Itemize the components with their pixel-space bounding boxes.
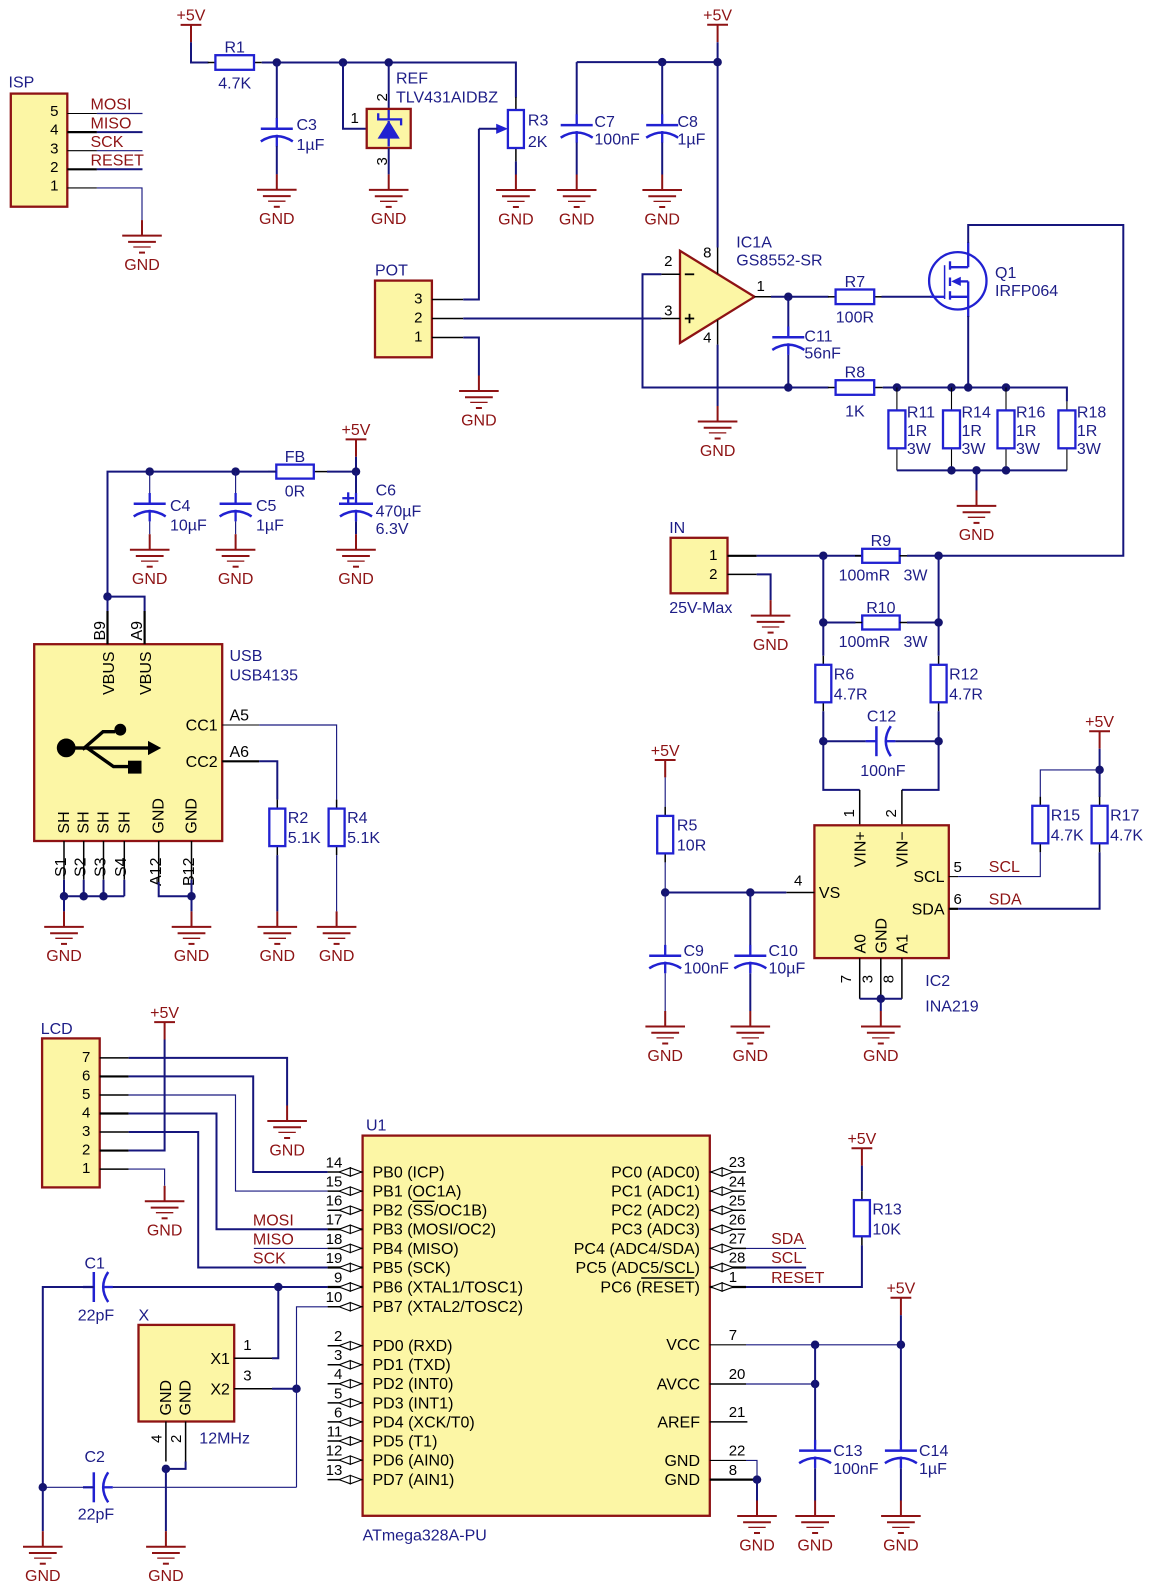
pin U1.19 <box>326 1250 363 1272</box>
svg-text:S4: S4 <box>113 857 130 877</box>
pin U1.12 <box>326 1443 363 1465</box>
svg-text:GND: GND <box>371 211 407 228</box>
svg-text:1R: 1R <box>1077 423 1097 440</box>
wire C7 bottom <box>576 143 578 175</box>
svg-text:GS8552-SR: GS8552-SR <box>736 252 822 269</box>
pin IC2.2 VIN- <box>901 790 903 825</box>
svg-text:PB2 (SS/OC1B): PB2 (SS/OC1B) <box>373 1203 488 1220</box>
svg-text:10K: 10K <box>872 1222 901 1239</box>
svg-text:GND: GND <box>174 948 210 965</box>
svg-text:C2: C2 <box>85 1449 106 1466</box>
wire Q1 source down <box>967 316 969 388</box>
wire S1 down <box>63 880 65 897</box>
svg-text:19: 19 <box>326 1250 343 1267</box>
junction VS / C9 <box>661 888 670 897</box>
svg-text:3W: 3W <box>1077 441 1102 458</box>
svg-text:GND: GND <box>132 571 168 588</box>
junction VCC / C13 <box>811 1341 820 1350</box>
pin U1.10 <box>326 1289 363 1311</box>
+5V supply (VCC) <box>886 1281 915 1316</box>
pin U1.25 <box>710 1192 746 1214</box>
svg-text:PC6 (RESET): PC6 (RESET) <box>600 1279 700 1296</box>
wire +5V to R13 <box>861 1166 863 1191</box>
svg-text:5.1K: 5.1K <box>288 830 321 847</box>
svg-text:REF: REF <box>396 71 428 88</box>
wire +5V rail down to IC1A pin8 <box>717 42 719 247</box>
svg-text:23: 23 <box>729 1154 746 1171</box>
svg-text:2: 2 <box>334 1328 342 1345</box>
ground GND (USB shield) <box>44 911 84 965</box>
pin POT.2 <box>432 318 463 320</box>
svg-text:+5V: +5V <box>651 743 680 760</box>
svg-text:PC3 (ADC3): PC3 (ADC3) <box>611 1222 700 1239</box>
svg-text:GND: GND <box>863 1048 899 1065</box>
svg-text:GND: GND <box>664 1472 700 1489</box>
svg-text:A5: A5 <box>230 708 250 725</box>
svg-text:1: 1 <box>709 547 717 564</box>
svg-text:MISO: MISO <box>91 115 132 132</box>
wire C5 top <box>235 472 237 493</box>
wire IC1A feedback <box>643 274 789 387</box>
svg-text:17: 17 <box>326 1212 343 1229</box>
svg-text:7: 7 <box>838 975 855 983</box>
svg-text:25: 25 <box>729 1192 746 1209</box>
svg-text:R9: R9 <box>871 533 892 550</box>
svg-text:POT: POT <box>375 262 408 279</box>
connector POT <box>375 262 432 357</box>
junction Q1 source / sense bus <box>964 383 973 392</box>
junction S1 <box>60 892 69 901</box>
svg-text:RESET: RESET <box>91 153 145 170</box>
svg-text:3: 3 <box>859 975 876 983</box>
svg-text:11: 11 <box>327 1423 343 1440</box>
wire pullup node to R17 <box>1099 770 1101 797</box>
svg-text:R1: R1 <box>224 40 245 57</box>
+5V supply (R5) <box>651 743 680 778</box>
svg-text:SCK: SCK <box>253 1251 286 1268</box>
svg-text:R10: R10 <box>866 600 895 617</box>
pin IC2.3 GND <box>880 958 882 999</box>
junction bank ground tap <box>972 466 981 475</box>
wire SDA net <box>958 852 1100 909</box>
wire REF pin2 branch <box>388 63 390 109</box>
wire ISP pin1 to ground <box>97 188 142 220</box>
svg-text:3W: 3W <box>962 441 987 458</box>
wire C14 bottom <box>900 1468 902 1500</box>
ground GND (C8) <box>642 175 682 229</box>
svg-text:C11: C11 <box>804 329 832 346</box>
svg-text:SCL: SCL <box>771 1250 802 1267</box>
svg-text:10R: 10R <box>677 838 706 855</box>
svg-text:5.1K: 5.1K <box>347 830 380 847</box>
wire A12 to B12 <box>159 882 192 896</box>
junction R10 right <box>934 618 943 627</box>
svg-text:100nF: 100nF <box>594 131 640 148</box>
junction C12 left <box>819 737 828 746</box>
voltage reference REF TLV431AIDBZ <box>351 71 499 166</box>
svg-text:1µF: 1µF <box>919 1461 947 1478</box>
junction +5V rail corner <box>713 58 722 67</box>
pin X.4 <box>165 1422 167 1462</box>
wire R3 wiper <box>479 128 498 130</box>
wire S4 down <box>123 880 125 897</box>
wire C13 bottom <box>814 1468 816 1500</box>
resistor R8 1K <box>828 365 883 421</box>
pin USB.B9 <box>106 611 108 644</box>
ground GND (X) <box>146 1531 186 1585</box>
wire +5V to pullup node <box>1099 749 1101 770</box>
svg-text:5: 5 <box>50 103 58 120</box>
ground GND (IC1A) <box>698 406 738 460</box>
wire REF rail R1 to R3 <box>262 63 516 98</box>
ground GND (C3) <box>257 174 297 228</box>
pin LCD.2 <box>100 1149 129 1151</box>
wire LCD pin6 to PB0 <box>129 1076 328 1172</box>
junction +5V rail / C8 <box>658 58 667 67</box>
junction IN+ / R6 branch <box>819 552 828 561</box>
pin U1.18 <box>326 1231 363 1253</box>
svg-text:56nF: 56nF <box>804 345 841 362</box>
svg-text:SCL: SCL <box>989 859 1020 876</box>
ground GND (C9) <box>645 1011 685 1065</box>
wire IN+ to R9 <box>757 555 863 557</box>
svg-text:R3: R3 <box>528 113 549 130</box>
svg-text:3: 3 <box>82 1123 90 1140</box>
svg-text:28: 28 <box>729 1250 746 1267</box>
wire POT pin1 to ground <box>463 338 479 376</box>
connector IN 25V-Max <box>669 520 732 617</box>
svg-text:C9: C9 <box>684 943 705 960</box>
wire RESET net to R13 <box>746 1245 862 1287</box>
wire R4 to ground <box>336 855 338 911</box>
pin U1.17 <box>326 1212 363 1234</box>
svg-text:TLV431AIDBZ: TLV431AIDBZ <box>396 89 498 106</box>
ground GND (LCD pin7) <box>267 1106 307 1160</box>
svg-text:GND: GND <box>733 1048 769 1065</box>
ground GND (POT) <box>459 376 499 430</box>
svg-text:GND: GND <box>664 1453 700 1470</box>
ground GND (C10) <box>731 1011 771 1065</box>
svg-text:PB4 (MISO): PB4 (MISO) <box>373 1241 459 1258</box>
svg-text:CC2: CC2 <box>186 754 218 771</box>
wire C9 bottom <box>664 973 666 1011</box>
wire PB4 MISO stub <box>254 1247 328 1249</box>
svg-text:C8: C8 <box>678 114 699 131</box>
svg-text:GND: GND <box>151 798 168 834</box>
resistor R1 <box>208 40 262 93</box>
wire LCD pin1 to ground <box>129 1169 165 1186</box>
wire IN- to ground <box>757 574 771 600</box>
wire C4 bottom <box>149 521 151 534</box>
svg-text:+5V: +5V <box>1085 714 1114 731</box>
pin U1.9 <box>328 1269 363 1291</box>
svg-text:2: 2 <box>168 1435 185 1443</box>
svg-text:PB5 (SCK): PB5 (SCK) <box>373 1260 451 1277</box>
junction R9 / drain loop <box>934 552 943 561</box>
svg-text:C7: C7 <box>594 114 615 131</box>
svg-text:R11: R11 <box>907 405 935 422</box>
pin U1.28 <box>710 1250 746 1272</box>
svg-text:22pF: 22pF <box>78 1507 115 1524</box>
svg-text:GND: GND <box>498 211 534 228</box>
svg-text:S1: S1 <box>53 857 70 877</box>
svg-text:CC1: CC1 <box>186 718 218 735</box>
ground GND (IN) <box>751 600 791 654</box>
pin IC2.4 VS <box>786 892 814 894</box>
junction C1 / C2 ground side <box>39 1483 48 1492</box>
junction FB / C6 <box>352 467 361 476</box>
wire C5 bottom <box>235 521 237 534</box>
svg-text:1R: 1R <box>962 423 982 440</box>
pin IC1A.8 V+ <box>717 248 719 274</box>
IC U1 ATmega328A-PU <box>363 1117 710 1544</box>
resistor R7 <box>828 274 882 327</box>
USB logo <box>57 724 161 774</box>
svg-text:18: 18 <box>326 1231 343 1248</box>
wire X1 to PB6 node <box>272 1287 278 1358</box>
svg-text:PD7 (AIN1): PD7 (AIN1) <box>373 1472 455 1489</box>
resistor R4 5.1K <box>329 800 381 856</box>
wire +5V to VCC net <box>900 1315 902 1345</box>
wire C14 top <box>900 1345 902 1445</box>
pin LCD.7 <box>100 1057 129 1059</box>
svg-text:C3: C3 <box>297 117 318 134</box>
pin USB.B12 <box>191 841 193 880</box>
junction A12 B12 <box>187 892 196 901</box>
pin LCD.4 <box>100 1112 129 1114</box>
svg-text:3: 3 <box>414 291 422 308</box>
wire VCC net <box>746 1344 901 1346</box>
junction X2 / PB7 / C2 <box>292 1384 301 1393</box>
pin U1.24 <box>710 1173 746 1195</box>
svg-text:1µF: 1µF <box>678 131 706 148</box>
pin U1.11 <box>327 1423 363 1445</box>
ground GND (C7) <box>557 175 597 229</box>
pin LCD.1 <box>100 1168 129 1170</box>
svg-text:8: 8 <box>703 245 711 262</box>
MOSFET Q1 IRFP064 <box>929 242 1058 317</box>
svg-text:PD0 (RXD): PD0 (RXD) <box>373 1338 453 1355</box>
svg-text:USB: USB <box>230 648 263 665</box>
junction VBUS / C4 <box>145 467 154 476</box>
svg-text:GND: GND <box>218 571 254 588</box>
svg-text:R14: R14 <box>962 405 991 422</box>
svg-text:4: 4 <box>794 872 802 889</box>
svg-text:PC5 (ADC5/SCL): PC5 (ADC5/SCL) <box>576 1260 700 1277</box>
ground GND (USB gnd) <box>172 911 212 965</box>
ground GND (C13) <box>795 1501 835 1555</box>
svg-text:MISO: MISO <box>253 1232 294 1249</box>
wire shield to ground <box>63 896 65 911</box>
ferrite bead FB 0R <box>268 449 327 501</box>
svg-text:C5: C5 <box>256 498 277 515</box>
svg-text:10µF: 10µF <box>170 518 207 535</box>
pin U1.1 <box>710 1269 746 1291</box>
wire IC2 to ground <box>880 999 882 1011</box>
wire C2 left lead <box>43 1486 94 1488</box>
svg-text:100R: 100R <box>836 310 874 327</box>
svg-text:6: 6 <box>954 891 962 908</box>
pin USB.S4 <box>123 841 125 880</box>
pin USB.A6 CC2 <box>222 760 259 762</box>
pin IC1A.1 output <box>755 296 772 298</box>
+5V supply (pullups) <box>1085 714 1114 749</box>
pin POT.3 <box>432 299 463 301</box>
capacitor C1 <box>78 1256 115 1325</box>
svg-text:12MHz: 12MHz <box>199 1431 250 1448</box>
wire C11 top <box>787 297 789 327</box>
wire CC1 to R4 <box>259 725 337 800</box>
crystal X 12MHz <box>139 1308 252 1448</box>
wire B12 to ground <box>191 880 193 912</box>
pin ISP.3 <box>67 150 97 152</box>
pin USB.A9 <box>144 611 146 644</box>
junction VBUS pins <box>103 592 112 601</box>
svg-text:1µF: 1µF <box>297 137 325 154</box>
pin U1.16 <box>326 1193 363 1215</box>
junction U1 grounds <box>753 1475 762 1484</box>
wire left sense column upper <box>822 556 824 656</box>
wire C6 top <box>355 472 357 493</box>
svg-text:SCL: SCL <box>913 869 944 886</box>
+5V supply (LCD) <box>150 1005 179 1040</box>
svg-text:20: 20 <box>729 1366 746 1383</box>
junction VCC / C14 <box>897 1341 906 1350</box>
junction C12 right <box>934 737 943 746</box>
svg-text:9: 9 <box>334 1269 342 1286</box>
svg-text:RESET: RESET <box>771 1270 825 1287</box>
pin ISP.5 <box>67 113 97 115</box>
svg-text:6.3V: 6.3V <box>376 521 409 538</box>
resistor R15 4.7K <box>1032 797 1084 853</box>
wire PB7 to X2 column <box>297 1307 328 1488</box>
svg-text:B12: B12 <box>181 857 198 886</box>
pin U1.8 GND <box>710 1478 757 1480</box>
svg-text:INA219: INA219 <box>925 998 978 1015</box>
pin POT.1 <box>432 337 463 339</box>
svg-text:4.7K: 4.7K <box>1051 827 1084 844</box>
wire X2 lead <box>272 1388 297 1390</box>
svg-text:PC4 (ADC4/SDA): PC4 (ADC4/SDA) <box>574 1241 700 1258</box>
svg-text:GND: GND <box>461 412 497 429</box>
svg-text:GND: GND <box>644 211 680 228</box>
junction R11 / sense bus <box>893 383 902 392</box>
wire +5V rail C7 C8 <box>577 61 718 63</box>
svg-text:+5V: +5V <box>703 8 732 25</box>
wire C7 top <box>576 62 578 114</box>
+5V supply (op-amp rail) <box>703 8 732 43</box>
pin IC2.7 A0 <box>859 958 861 999</box>
wire U1 ground down <box>756 1480 758 1501</box>
wire R6 to VIN+ <box>823 711 859 790</box>
capacitor C5 <box>220 493 285 535</box>
wire PB6 C1 net <box>108 1286 328 1288</box>
resistor R10 100mR 3W <box>839 600 929 651</box>
svg-text:5: 5 <box>82 1086 90 1103</box>
svg-text:4.7R: 4.7R <box>834 686 868 703</box>
svg-text:AREF: AREF <box>657 1414 700 1431</box>
svg-text:1: 1 <box>243 1337 251 1354</box>
svg-text:PD1 (TXD): PD1 (TXD) <box>373 1357 451 1374</box>
pin USB.A12 <box>158 841 160 882</box>
svg-text:GND: GND <box>559 211 595 228</box>
svg-text:4.7K: 4.7K <box>1110 827 1143 844</box>
wire net MISO <box>97 131 143 133</box>
svg-text:1: 1 <box>82 1160 90 1177</box>
capacitor C14 <box>885 1440 949 1478</box>
svg-text:2: 2 <box>883 809 900 817</box>
svg-text:4: 4 <box>50 122 58 139</box>
svg-text:470µF: 470µF <box>376 504 422 521</box>
svg-text:GND: GND <box>124 257 160 274</box>
svg-text:C10: C10 <box>769 943 798 960</box>
svg-text:VS: VS <box>819 885 840 902</box>
capacitor C3 <box>261 117 325 154</box>
svg-text:PB1 (OC1A): PB1 (OC1A) <box>373 1184 462 1201</box>
junction PB6 / X1 / C1 <box>274 1283 283 1292</box>
pin U1.13 <box>326 1462 363 1484</box>
svg-text:100nF: 100nF <box>860 763 906 780</box>
wire C2 right lead <box>113 1486 297 1488</box>
svg-text:PC0 (ADC0): PC0 (ADC0) <box>611 1164 700 1181</box>
svg-text:2: 2 <box>82 1142 90 1159</box>
svg-text:SCK: SCK <box>91 134 124 151</box>
capacitor C10 <box>734 943 805 977</box>
wire A0 GND A1 join <box>860 998 902 1000</box>
svg-text:GND: GND <box>319 948 355 965</box>
ground GND (R3) <box>496 175 536 229</box>
wire POT pin3 to R3 wiper <box>463 129 479 300</box>
junction R16 bottom <box>1002 466 1011 475</box>
pin IC2.8 A1 <box>901 958 903 999</box>
svg-text:R12: R12 <box>949 666 978 683</box>
wire R10 right <box>907 622 939 624</box>
resistor R18 1R 3W <box>1058 401 1106 470</box>
ground GND (R4) <box>317 911 357 965</box>
pin LCD.3 <box>100 1131 129 1133</box>
svg-text:VIN−: VIN− <box>895 831 912 867</box>
svg-text:IRFP064: IRFP064 <box>995 283 1058 300</box>
svg-text:Q1: Q1 <box>995 265 1016 282</box>
svg-text:7: 7 <box>82 1049 90 1066</box>
svg-text:1: 1 <box>351 110 359 127</box>
svg-text:R16: R16 <box>1016 405 1045 422</box>
wire A9 branch <box>108 597 145 611</box>
svg-text:C6: C6 <box>376 483 397 500</box>
pin U1.26 <box>710 1212 746 1234</box>
svg-text:3: 3 <box>243 1367 251 1384</box>
wire POT pin2 to IC1A +input <box>463 318 661 320</box>
junction REF rail / REF pin1 <box>339 58 348 67</box>
svg-text:R8: R8 <box>845 365 866 382</box>
svg-text:4.7K: 4.7K <box>218 75 251 92</box>
connector ISP <box>9 75 68 207</box>
pin USB.S2 <box>83 841 85 880</box>
svg-text:R4: R4 <box>347 810 368 827</box>
svg-text:14: 14 <box>326 1154 343 1171</box>
pin LCD.5 <box>100 1094 129 1096</box>
junction IC1A output / C11 <box>784 293 793 302</box>
svg-text:100nF: 100nF <box>684 961 730 978</box>
svg-text:5: 5 <box>334 1385 342 1402</box>
svg-text:+5V: +5V <box>847 1131 876 1148</box>
wire IC1A output to R7 <box>771 296 829 298</box>
wire C9 top <box>664 893 666 946</box>
svg-text:USB4135: USB4135 <box>230 667 299 684</box>
svg-text:SH: SH <box>116 811 133 833</box>
ground GND (C14) <box>881 1501 921 1555</box>
svg-text:GND: GND <box>269 1142 305 1159</box>
